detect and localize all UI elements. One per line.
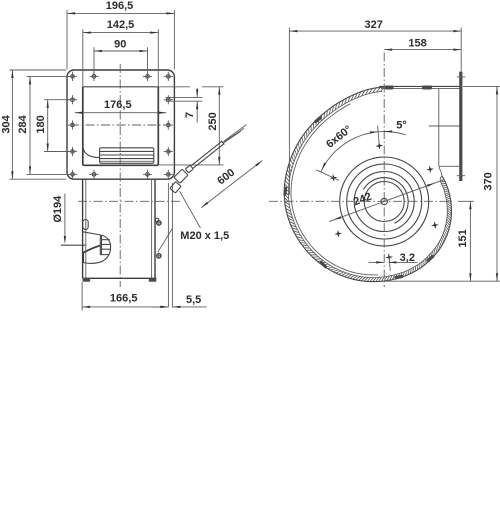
dimension 151 line: [469, 201, 471, 281]
svg-text:142,5: 142,5: [107, 19, 135, 31]
scroll housing clips: [426, 254, 435, 262]
bottom extension line: [381, 280, 500, 282]
terminal screw lower: [157, 254, 161, 258]
hub arc: [363, 178, 408, 224]
flange opening left edge: [82, 87, 84, 166]
motor bracket right foot: [149, 278, 157, 281]
dimension 166,5 extension line: [81, 282, 83, 311]
flange mounting hole 12: [92, 173, 96, 177]
dimension 304 extension lines: [10, 69, 67, 71]
bolt radial extension top: [378, 126, 380, 145]
svg-text:600: 600: [215, 167, 237, 188]
vertical centerline of flange: [119, 64, 121, 287]
slot edge lines for dimension 7: [166, 96, 203, 98]
terminal screw upper: [157, 221, 161, 225]
flange mounting hole 14: [167, 173, 171, 177]
motor mount circle: [347, 164, 422, 239]
svg-text:176,5: 176,5: [104, 99, 132, 111]
dimension 370 extension line top: [463, 85, 500, 87]
cable end ferrule: [221, 141, 224, 145]
cable wire strands: [224, 125, 247, 142]
svg-text:7: 7: [184, 112, 196, 118]
horizontal centerline (right view): [269, 200, 452, 202]
dimension 600 line: [201, 161, 262, 208]
impeller center hole: [381, 198, 387, 204]
angle dimension arc: [321, 131, 406, 171]
impeller inlet circle: [340, 157, 429, 246]
dimension 158 line: [384, 49, 461, 51]
flange mounting hole 6: [167, 98, 171, 102]
angle arc arrow mid: [370, 131, 378, 133]
motor cooling scoop grille: [99, 235, 101, 254]
dimension 370 line: [496, 86, 498, 281]
dimension 304 line: [11, 70, 13, 179]
angle arc arrow center: [384, 130, 392, 132]
dimension 3,2 lines: [369, 261, 385, 263]
motor cooling scoop crease: [83, 246, 100, 253]
mounting bolt mark 3: [431, 221, 439, 229]
flange mounting hole 10: [167, 150, 171, 154]
flange mounting hole 8: [167, 123, 171, 127]
dimension 327 extension line left: [288, 28, 290, 196]
bolt radial extension left: [316, 170, 339, 181]
scroll housing inner rolled edge 2: [291, 104, 378, 275]
svg-text:196,5: 196,5: [106, 0, 134, 12]
flange mounting hole 2: [92, 75, 96, 79]
svg-text:166,5: 166,5: [110, 292, 138, 304]
dimension 180 line: [47, 100, 49, 152]
outlet flange extension line up: [460, 28, 462, 72]
dimension 284 line: [29, 76, 31, 174]
svg-text:180: 180: [35, 115, 47, 133]
dimension 242 arrows: [333, 216, 341, 220]
svg-text:6x60°: 6x60°: [324, 123, 354, 150]
diameter 194 leader line: [64, 194, 66, 238]
svg-text:M20 x 1,5: M20 x 1,5: [180, 230, 229, 242]
dimension 196,5 line: [67, 12, 174, 14]
cable gland neck: [185, 165, 193, 173]
dimension 180 extension lines: [44, 99, 70, 101]
svg-text:3,2: 3,2: [400, 252, 415, 264]
dimension 151 extension line: [458, 200, 474, 202]
svg-text:151: 151: [457, 229, 469, 247]
housing top flat edge: [379, 85, 459, 87]
dimension 250 line: [218, 87, 220, 165]
flange mounting hole 4: [167, 75, 171, 79]
svg-text:327: 327: [365, 19, 383, 31]
dimension 327 line: [289, 30, 461, 32]
dimension 7 line and arrows: [196, 88, 198, 98]
svg-text:304: 304: [0, 114, 12, 133]
motor hub circle: [364, 182, 404, 222]
svg-text:90: 90: [114, 38, 126, 50]
flange opening bottom edge: [83, 164, 159, 166]
dimension 166,5 line: [82, 306, 168, 308]
cable: [191, 141, 222, 165]
dimension 176,5 line: [75, 112, 167, 114]
mounting bolt mark 2: [426, 165, 434, 173]
mounting bolt mark 6: [330, 174, 338, 182]
flange mounting hole 13: [146, 173, 150, 177]
svg-text:250: 250: [207, 112, 219, 130]
dimension 196,5 extension lines: [66, 10, 68, 69]
svg-text:370: 370: [483, 172, 495, 190]
flange mounting hole 11: [71, 173, 75, 177]
cable gland lock nut: [170, 182, 181, 193]
dimension 284 extension lines: [27, 75, 70, 77]
dimension 142,5 extension lines: [82, 29, 84, 87]
dimension 142,5 line: [83, 32, 159, 34]
dimension 90 line: [94, 50, 148, 52]
cable gland body: [174, 169, 188, 183]
dimension 5,5 arrows: [152, 306, 168, 308]
small hole on right wall: [155, 218, 159, 222]
mounting bolt mark 4: [385, 253, 393, 261]
flange opening right edge: [157, 87, 159, 166]
angle arc arrow low: [322, 163, 327, 171]
flange opening top edge: [83, 86, 159, 88]
flange mounting hole 7: [71, 123, 75, 127]
motor bracket bottom edge: [83, 277, 157, 279]
motor bracket right wall: [151, 179, 153, 278]
motor bracket left foot: [83, 278, 91, 281]
thread size leader line: [180, 191, 201, 228]
motor end circle: [354, 172, 414, 232]
inlet flange plate outline (left view): [67, 70, 174, 179]
svg-text:284: 284: [17, 114, 29, 133]
outlet duct bottom edge: [439, 165, 460, 167]
motor cooling scoop outline: [83, 232, 111, 264]
svg-text:5°: 5°: [396, 120, 407, 132]
outlet duct left edge: [438, 88, 440, 166]
svg-text:5,5: 5,5: [186, 294, 201, 306]
edge line on terminal box: [158, 229, 173, 253]
top edge clip tabs: [385, 86, 394, 90]
mounting bolt mark 1: [375, 142, 383, 150]
svg-text:Ø194: Ø194: [52, 195, 64, 223]
flange mounting hole 5: [71, 98, 75, 102]
horizontal centerline of flange: [70, 124, 171, 126]
scroll housing rear wall (left view): [167, 183, 169, 308]
scroll wall fillet inside opening: [83, 146, 100, 157]
scroll tongue curl: [439, 166, 442, 176]
scroll housing inner rolled edge: [288, 91, 447, 277]
flange mounting hole 9: [71, 150, 75, 154]
bolt radial extension bottom: [389, 254, 390, 270]
outlet duct mid seam: [429, 125, 460, 127]
dimension 90 extension lines: [93, 47, 95, 73]
impeller blades visible through opening: [100, 148, 154, 164]
svg-text:158: 158: [408, 37, 426, 49]
flange mounting hole 3: [146, 75, 150, 79]
bolt circle diameter line: [329, 180, 444, 222]
clip on left wall: [83, 220, 88, 230]
outlet flange hole marks: [457, 76, 465, 78]
motor axis centerline (left view): [78, 200, 180, 202]
scroll edge hatching: [440, 180, 445, 183]
outlet flange bar (edge view): [459, 72, 462, 181]
flange mounting hole 1: [71, 75, 75, 79]
motor bracket left wall: [82, 179, 84, 278]
dimension 250 extension lines: [159, 86, 190, 88]
vertical centerline (right view): [383, 53, 385, 288]
mounting bolt mark 5: [334, 230, 342, 238]
scroll housing outer spiral edge: [284, 87, 451, 282]
